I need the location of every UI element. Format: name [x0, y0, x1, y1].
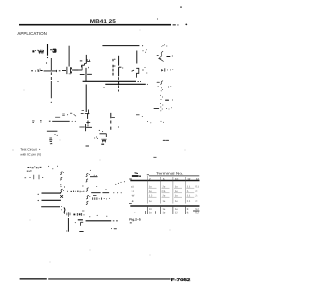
tick row — [25, 175, 44, 179]
IC right pin glyph column — [86, 173, 90, 204]
terminal B squiggle arrow — [160, 51, 163, 59]
psi glyph — [67, 212, 70, 217]
svg-text:·W: ·W — [131, 194, 135, 197]
svg-text:1e: 1e — [175, 194, 178, 197]
dashes right margin — [129, 179, 132, 204]
svg-text:MB41 25: MB41 25 — [90, 19, 116, 25]
diagonal dots — [115, 184, 116, 185]
bus rail B — [105, 83, 146, 85]
svg-text:5.2: 5.2 — [195, 212, 199, 215]
svg-text:2:: 2: — [195, 200, 197, 203]
IC left pin glyph column — [60, 172, 64, 198]
wire row3 with hook — [41, 207, 65, 214]
svg-text:1e: 1e — [149, 185, 152, 188]
svg-text:2.5·: 2.5· — [162, 190, 167, 193]
svg-text:2:: 2: — [195, 194, 197, 197]
svg-text:Fig.2–5: Fig.2–5 — [129, 218, 141, 222]
svg-text:Terminal No.: Terminal No. — [156, 171, 184, 175]
capacitor C2 — [38, 69, 41, 72]
capacitor C3 — [67, 67, 72, 74]
svg-text:2·: 2· — [187, 190, 189, 193]
lower-left schematic — [32, 85, 119, 145]
svg-text:1e: 1e — [175, 208, 178, 211]
heavy rule — [130, 205, 199, 207]
connector C mark — [161, 69, 163, 72]
svg-text:6:: 6: — [187, 212, 189, 215]
wire branch x118.6 — [118, 56, 120, 66]
terminal I dots — [160, 120, 163, 123]
transistor Q1 cluster — [85, 55, 87, 64]
diagonal marks — [70, 113, 76, 116]
svg-text:1.2: 1.2 — [149, 194, 153, 197]
svg-text:-E: -E — [131, 200, 134, 203]
sub header numbers — [149, 177, 199, 181]
component labels block — [27, 166, 42, 171]
capacitor C1 body — [50, 49, 52, 51]
wire right r1 short — [90, 176, 98, 178]
wire vertical to C3 — [68, 46, 70, 67]
svg-text::·1: :·1 — [131, 190, 135, 193]
header underline — [149, 175, 199, 177]
scan specks — [86, 114, 157, 229]
svg-text:1e: 1e — [149, 190, 152, 193]
svg-text:with IC pin (V): with IC pin (V) — [20, 152, 41, 156]
bus rail A — [83, 80, 136, 82]
svg-text:1e: 1e — [149, 200, 152, 203]
IC bottom vertical — [67, 218, 69, 232]
label row capacitors — [92, 197, 110, 199]
label dots above row1 — [67, 191, 68, 192]
node dot — [46, 62, 47, 63]
capacitor C6 — [136, 51, 138, 64]
speck near header — [157, 18, 158, 19]
corner cell arrow mark — [135, 172, 138, 175]
specks near C6 — [143, 50, 144, 51]
approx mark — [62, 114, 65, 115]
svg-text:1e: 1e — [163, 200, 166, 203]
svg-text:2.1: 2.1 — [187, 194, 191, 197]
column verticals light — [147, 176, 185, 204]
coil squiggle — [49, 138, 52, 144]
mark dashes — [163, 139, 168, 141]
wire supply vertical — [47, 44, 49, 56]
wire row2 — [42, 199, 61, 201]
svg-text:2e: 2e — [163, 185, 166, 188]
svg-text:APPLICATION: APPLICATION — [17, 31, 47, 36]
segment lower — [47, 130, 58, 132]
terminal A dots — [163, 45, 164, 46]
svg-text:1e: 1e — [175, 190, 178, 193]
right terminal column — [154, 44, 173, 140]
terminal E dots — [157, 85, 160, 88]
label +9V supply — [32, 50, 38, 53]
junction bar — [79, 126, 92, 128]
wire input line — [31, 70, 51, 72]
terminal D squiggle — [157, 81, 159, 83]
bottom rule — [20, 278, 47, 279]
row underline dashes — [149, 187, 195, 189]
svg-text:1e: 1e — [149, 212, 152, 215]
svg-text:1e: 1e — [163, 212, 166, 215]
svg-text:1e: 1e — [175, 185, 178, 188]
terminal F dots and dash — [159, 94, 162, 97]
svg-text:–: – — [134, 212, 136, 215]
wire feedback — [49, 120, 70, 122]
capacitor C4 electrolytic dashed — [112, 59, 114, 76]
svg-text:1e: 1e — [175, 200, 178, 203]
footer verticals — [146, 207, 186, 214]
dot columns — [60, 205, 63, 208]
tiny mark — [50, 143, 51, 144]
wire row1 right continuation — [91, 192, 109, 194]
svg-text:10: 10 — [149, 208, 152, 211]
short dash right — [193, 210, 199, 212]
speaker mark — [102, 131, 103, 132]
stray dot right of rule — [185, 24, 187, 26]
capacitor C7 chain — [81, 113, 90, 115]
dots — [48, 166, 49, 167]
VCC top rail — [102, 45, 139, 47]
data rows — [131, 185, 200, 203]
wire vertical x86 upper — [85, 85, 87, 113]
footer row 2 — [134, 212, 200, 215]
ground marks — [81, 222, 84, 226]
terminal H dash and dots — [154, 107, 159, 109]
footer row 1 — [149, 208, 200, 211]
small dash above — [55, 116, 60, 118]
svg-text:1e: 1e — [163, 208, 166, 211]
svg-text:F-7052: F-7052 — [171, 277, 192, 282]
stray mark top right — [180, 7, 182, 8]
corner cell bold bar — [132, 175, 139, 177]
svg-text:Test Circuit: Test Circuit — [20, 147, 37, 151]
svg-text:2.1: 2.1 — [187, 200, 191, 203]
left terminal marks — [32, 121, 34, 122]
wire row1 — [42, 192, 61, 194]
thick header rule — [130, 180, 199, 182]
svg-text:2:: 2: — [195, 190, 197, 193]
svg-text:5:: 5: — [187, 208, 189, 211]
capacitor C8 dashed vertical — [110, 113, 112, 130]
bottom horizontal wire — [78, 220, 111, 221]
svg-text:2e: 2e — [163, 194, 166, 197]
wire junction vertical — [50, 58, 52, 98]
svg-text:a1: a1 — [131, 185, 134, 188]
svg-text:5.2: 5.2 — [195, 208, 199, 211]
svg-text:2.1: 2.1 — [187, 185, 191, 188]
svg-text:12: 12 — [175, 212, 178, 215]
svg-text:5.1: 5.1 — [195, 185, 199, 188]
terminal G dots — [159, 102, 162, 105]
header rule — [19, 24, 171, 26]
label a(2) — [73, 213, 84, 216]
dots above wire — [89, 216, 90, 217]
